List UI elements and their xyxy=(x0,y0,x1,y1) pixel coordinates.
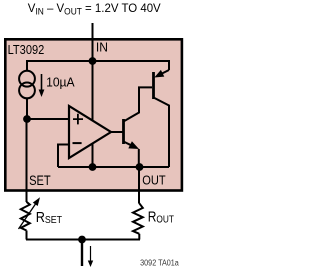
node IN junction dot xyxy=(89,57,97,65)
svg-text:10µA: 10µA xyxy=(46,75,75,90)
IC body LT3092 xyxy=(5,39,182,190)
transistor Q1 emitter xyxy=(124,142,132,146)
wire op-amp V+ supply xyxy=(92,61,94,121)
wire IN pin vertical xyxy=(92,23,94,61)
resistor ROUT xyxy=(133,203,143,234)
current source arrow xyxy=(41,74,43,91)
wire OUT pin vertical xyxy=(138,167,140,204)
node SET junction dot xyxy=(23,115,31,123)
wire RSET lower lead xyxy=(26,231,28,240)
svg-text:SET: SET xyxy=(29,173,51,188)
node bottom junction dot xyxy=(78,236,86,244)
wire current source to SET node xyxy=(26,98,28,119)
wire OUT rail xyxy=(58,166,169,168)
svg-text:OUT: OUT xyxy=(142,173,166,188)
op-amp U1 xyxy=(69,106,111,158)
transistor Q2 PNP base bar xyxy=(152,72,155,99)
transistor Q1 NPN base bar xyxy=(122,119,125,144)
wire top rail xyxy=(27,61,169,71)
node OUT junction dot xyxy=(136,163,144,171)
current source I1 10uA xyxy=(19,71,35,87)
resistor RSET xyxy=(21,202,30,231)
current flow arrow xyxy=(90,246,92,261)
svg-text:VIN – VOUT = 1.2V TO 40V: VIN – VOUT = 1.2V TO 40V xyxy=(28,1,161,17)
wire SET pin vertical xyxy=(26,119,28,202)
node op-amp V- junction dot xyxy=(89,163,97,171)
wire op-amp V- supply xyxy=(92,144,94,168)
op-amp plus symbol xyxy=(73,114,83,125)
transistor Q1 collector xyxy=(124,87,153,121)
transistor Q2 emitter xyxy=(161,70,169,74)
wire ROUT lower lead xyxy=(138,234,140,240)
wire op-amp output to Q1 base xyxy=(111,131,123,133)
op-amp minus symbol xyxy=(73,142,82,144)
wire inverting input feedback xyxy=(58,145,69,168)
wire bottom stub xyxy=(81,240,83,267)
transistor Q2 collector xyxy=(154,98,170,168)
svg-text:3092 TA01a: 3092 TA01a xyxy=(140,258,179,268)
resistor RSET adjustment arrow xyxy=(19,203,37,230)
wire bottom rail xyxy=(26,239,140,241)
svg-text:LT3092: LT3092 xyxy=(8,42,45,57)
svg-text:IN: IN xyxy=(96,40,108,54)
wire noninverting input xyxy=(27,118,69,120)
